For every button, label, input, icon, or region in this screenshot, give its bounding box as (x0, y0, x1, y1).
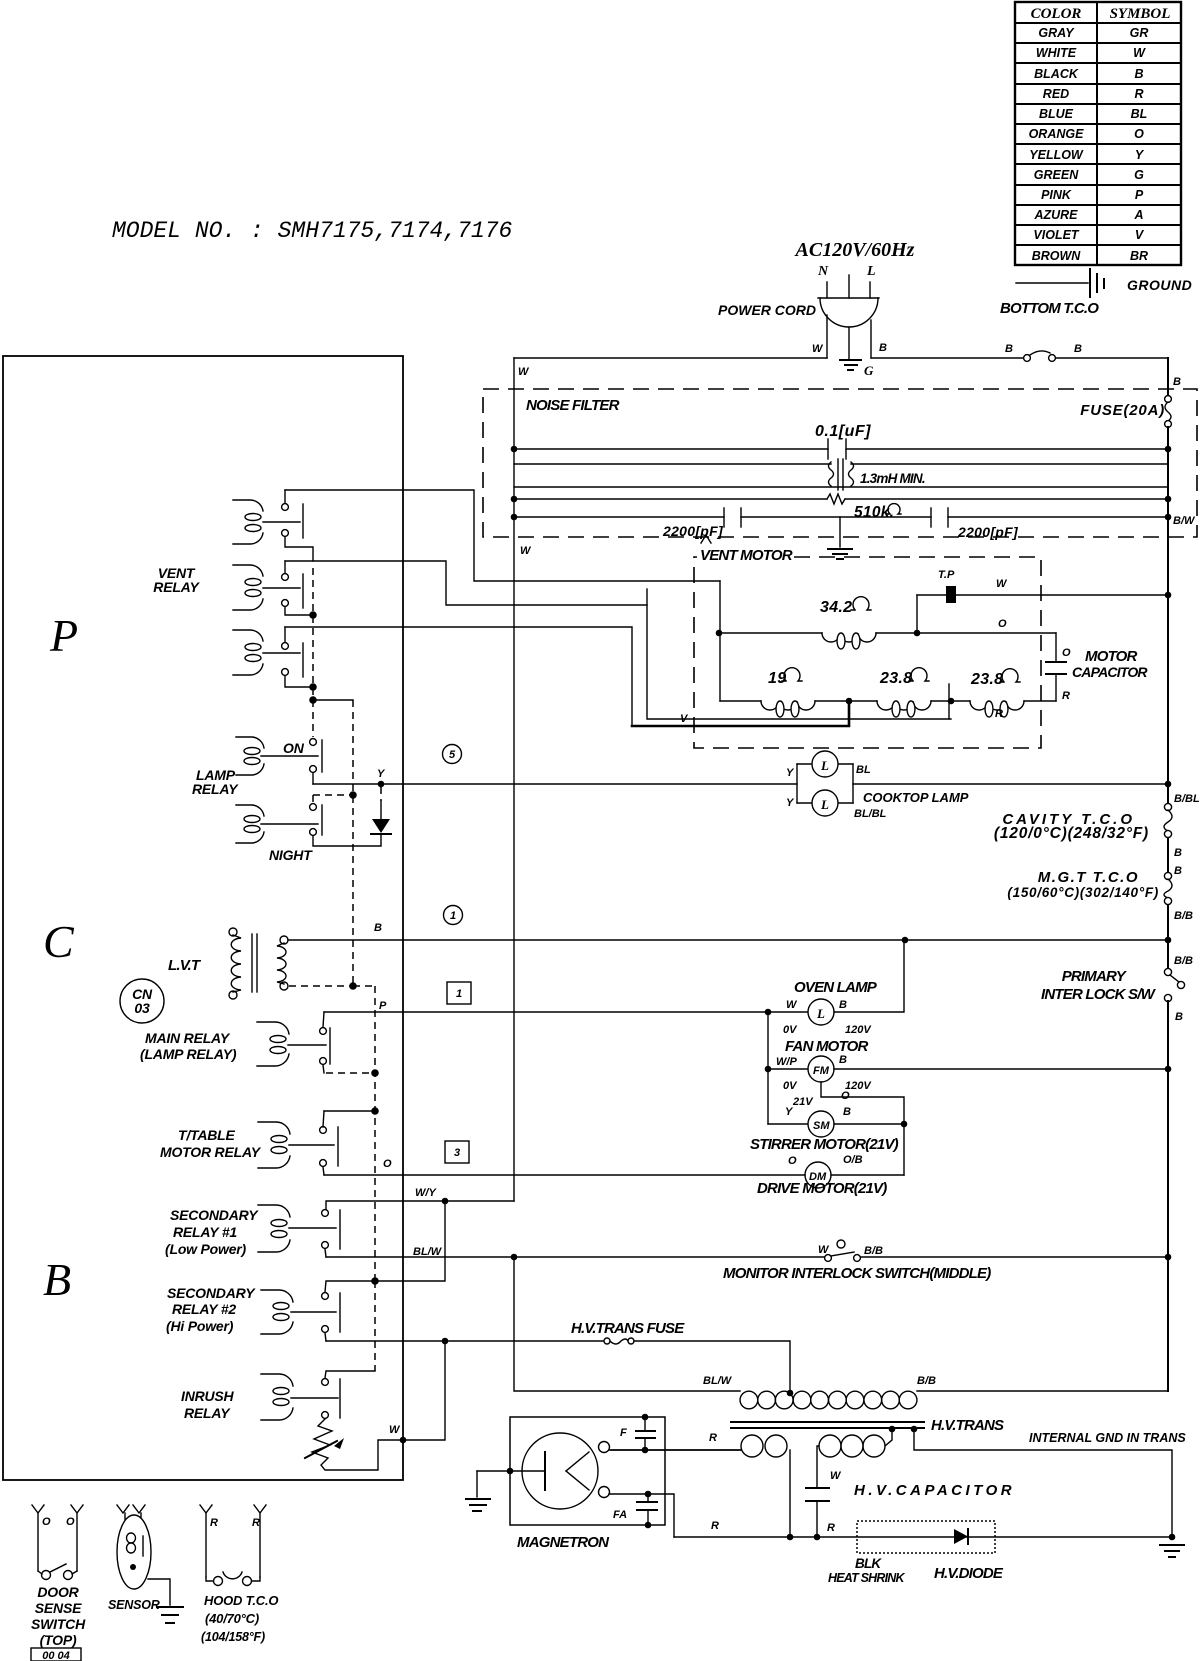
svg-text:GROUND: GROUND (1127, 277, 1192, 293)
svg-text:BOTTOM T.C.O: BOTTOM T.C.O (1000, 300, 1099, 317)
svg-text:1: 1 (450, 910, 456, 922)
svg-text:(LAMP RELAY): (LAMP RELAY) (140, 1046, 237, 1062)
svg-text:VENT MOTOR: VENT MOTOR (700, 547, 793, 564)
svg-text:W: W (812, 343, 824, 355)
svg-text:R: R (827, 1522, 835, 1534)
svg-text:(150/60°C)(302/140°F): (150/60°C)(302/140°F) (1007, 885, 1159, 900)
svg-text:RED: RED (1043, 87, 1069, 101)
svg-text:BR: BR (1130, 249, 1148, 263)
svg-text:L: L (820, 797, 829, 812)
svg-text:BLACK: BLACK (1034, 67, 1079, 81)
svg-text:R: R (711, 1520, 719, 1532)
svg-text:GREEN: GREEN (1034, 168, 1079, 182)
svg-text:O: O (841, 1090, 850, 1102)
svg-text:BL/W: BL/W (703, 1375, 733, 1387)
svg-text:R: R (995, 708, 1003, 720)
svg-text:DRIVE MOTOR(21V): DRIVE MOTOR(21V) (757, 1180, 887, 1197)
svg-text:AZURE: AZURE (1033, 208, 1078, 222)
svg-text:HEAT SHRINK: HEAT SHRINK (828, 1571, 905, 1585)
svg-text:B: B (1173, 376, 1181, 388)
svg-text:RELAY: RELAY (153, 579, 200, 595)
svg-text:FM: FM (813, 1065, 830, 1077)
svg-text:H.V.DIODE: H.V.DIODE (934, 1565, 1004, 1582)
svg-text:0.1[uF]: 0.1[uF] (815, 423, 871, 440)
svg-text:MAIN RELAY: MAIN RELAY (145, 1030, 231, 1046)
svg-text:G: G (864, 363, 874, 378)
svg-text:B: B (374, 922, 382, 934)
svg-text:B/W: B/W (1173, 515, 1196, 527)
svg-text:L.V.T: L.V.T (168, 957, 202, 974)
svg-text:2200[pF]: 2200[pF] (662, 523, 724, 539)
svg-text:19: 19 (768, 670, 786, 687)
svg-text:B: B (1005, 343, 1013, 355)
svg-text:B/B: B/B (917, 1375, 936, 1387)
svg-text:VIOLET: VIOLET (1033, 228, 1080, 242)
svg-text:W/Y: W/Y (415, 1187, 437, 1199)
svg-text:R: R (210, 1517, 218, 1529)
svg-text:BLK: BLK (855, 1556, 882, 1571)
svg-text:RELAY: RELAY (192, 781, 239, 797)
svg-text:INRUSH: INRUSH (181, 1388, 235, 1404)
svg-text:B: B (843, 1106, 851, 1118)
svg-text:L: L (820, 758, 829, 773)
svg-text:(120/0°C)(248/32°F): (120/0°C)(248/32°F) (994, 825, 1149, 842)
svg-text:B: B (1174, 865, 1182, 877)
svg-text:23.8: 23.8 (970, 671, 1003, 688)
svg-text:B: B (879, 342, 887, 354)
svg-text:L: L (816, 1006, 825, 1021)
svg-text:2200[pF]: 2200[pF] (957, 524, 1019, 540)
svg-text:B: B (1134, 67, 1143, 81)
svg-text:SECONDARY: SECONDARY (167, 1285, 256, 1301)
svg-text:O: O (66, 1516, 75, 1528)
svg-text:SECONDARY: SECONDARY (170, 1207, 259, 1223)
svg-text:W: W (389, 1424, 401, 1436)
svg-text:MOTOR RELAY: MOTOR RELAY (160, 1144, 262, 1160)
svg-text:MOTOR: MOTOR (1085, 648, 1138, 665)
svg-text:MAGNETRON: MAGNETRON (517, 1534, 610, 1551)
svg-text:CAPACITOR: CAPACITOR (1072, 664, 1148, 680)
svg-text:B: B (1074, 343, 1082, 355)
svg-text:BL/W: BL/W (413, 1246, 443, 1258)
svg-text:(Low Power): (Low Power) (165, 1241, 247, 1257)
svg-text:BL: BL (856, 764, 871, 776)
svg-text:N: N (817, 264, 829, 279)
svg-text:INTER LOCK S/W: INTER LOCK S/W (1041, 986, 1157, 1003)
svg-text:O: O (42, 1516, 51, 1528)
svg-text:B: B (1175, 1011, 1183, 1023)
svg-text:R: R (252, 1517, 260, 1529)
svg-text:H.V.CAPACITOR: H.V.CAPACITOR (854, 1482, 1015, 1499)
svg-text:5: 5 (449, 749, 456, 761)
svg-text:FAN MOTOR: FAN MOTOR (785, 1038, 868, 1055)
svg-text:A: A (1133, 208, 1143, 222)
svg-text:G: G (1134, 168, 1144, 182)
svg-text:O: O (383, 1158, 392, 1170)
svg-text:F: F (620, 1427, 627, 1439)
svg-text:H.V.TRANS: H.V.TRANS (931, 1417, 1004, 1434)
svg-text:T.P: T.P (938, 569, 955, 581)
svg-text:GRAY: GRAY (1038, 26, 1075, 40)
svg-text:PINK: PINK (1041, 188, 1072, 202)
svg-text:O: O (1062, 647, 1071, 659)
svg-text:STIRRER MOTOR(21V): STIRRER MOTOR(21V) (750, 1136, 899, 1153)
svg-text:3: 3 (454, 1147, 460, 1159)
svg-text:RELAY #1: RELAY #1 (173, 1224, 237, 1240)
svg-text:B: B (839, 1054, 847, 1066)
svg-text:MODEL NO. : SMH7175,7174,7176: MODEL NO. : SMH7175,7174,7176 (112, 218, 512, 244)
svg-text:SENSOR: SENSOR (108, 1598, 160, 1612)
svg-text:BROWN: BROWN (1032, 249, 1082, 263)
svg-text:B/B: B/B (1174, 910, 1193, 922)
svg-text:O: O (788, 1155, 797, 1167)
svg-text:PRIMARY: PRIMARY (1062, 968, 1128, 985)
svg-text:1: 1 (456, 988, 462, 1000)
svg-text:M.G.T T.C.O: M.G.T T.C.O (1038, 869, 1139, 886)
svg-text:O: O (998, 618, 1007, 630)
svg-text:W: W (786, 999, 798, 1011)
svg-text:SM: SM (813, 1120, 830, 1132)
svg-text:O: O (1134, 127, 1144, 141)
svg-text:ON: ON (283, 740, 305, 756)
svg-text:RELAY: RELAY (184, 1405, 231, 1421)
svg-text:(40/70°C): (40/70°C) (205, 1611, 259, 1626)
svg-text:POWER CORD: POWER CORD (718, 302, 816, 318)
svg-text:H.V.TRANS FUSE: H.V.TRANS FUSE (571, 1320, 685, 1337)
svg-text:23.8: 23.8 (879, 670, 912, 687)
svg-text:(TOP): (TOP) (40, 1632, 77, 1648)
svg-text:W/P: W/P (776, 1056, 797, 1068)
svg-text:COLOR: COLOR (1031, 6, 1082, 22)
svg-text:B: B (1174, 847, 1182, 859)
svg-text:T/TABLE: T/TABLE (178, 1127, 236, 1143)
svg-text:ORANGE: ORANGE (1029, 127, 1085, 141)
svg-text:NIGHT: NIGHT (269, 847, 313, 863)
svg-text:P: P (49, 610, 78, 661)
svg-text:B/BL: B/BL (1174, 793, 1200, 805)
svg-text:YELLOW: YELLOW (1029, 148, 1084, 162)
svg-text:GR: GR (1130, 26, 1149, 40)
svg-text:NOISE FILTER: NOISE FILTER (526, 397, 620, 414)
svg-text:O/B: O/B (843, 1154, 863, 1166)
svg-text:(Hi Power): (Hi Power) (166, 1318, 234, 1334)
svg-text:1.3mH MIN.: 1.3mH MIN. (860, 471, 925, 486)
svg-text:MONITOR INTERLOCK SWITCH(MIDDL: MONITOR INTERLOCK SWITCH(MIDDLE) (723, 1265, 991, 1282)
svg-text:W: W (520, 545, 532, 557)
svg-text:P: P (379, 1000, 387, 1012)
svg-text:0V: 0V (783, 1024, 798, 1036)
svg-text:C: C (43, 916, 75, 967)
svg-text:W: W (518, 366, 530, 378)
svg-text:B/B: B/B (1174, 955, 1193, 967)
svg-text:120V: 120V (845, 1024, 872, 1036)
svg-text:DOOR: DOOR (37, 1584, 79, 1600)
svg-text:W: W (1133, 46, 1146, 60)
svg-text:0V: 0V (783, 1080, 798, 1092)
svg-text:BL/BL: BL/BL (854, 808, 887, 820)
svg-text:L: L (866, 264, 876, 279)
svg-text:SENSE: SENSE (35, 1600, 82, 1616)
svg-text:(104/158°F): (104/158°F) (201, 1630, 265, 1644)
svg-text:B: B (839, 999, 847, 1011)
svg-text:BLUE: BLUE (1039, 107, 1074, 121)
svg-text:03: 03 (134, 1000, 150, 1016)
svg-text:SYMBOL: SYMBOL (1110, 6, 1171, 22)
svg-text:R: R (1062, 690, 1070, 702)
svg-text:W: W (830, 1470, 842, 1482)
svg-text:B/B: B/B (864, 1245, 883, 1257)
svg-text:R: R (1134, 87, 1143, 101)
svg-text:P: P (1135, 188, 1144, 202)
svg-text:SWITCH: SWITCH (31, 1616, 86, 1632)
svg-text:WHITE: WHITE (1036, 46, 1077, 60)
svg-text:R: R (709, 1432, 717, 1444)
svg-text:INTERNAL GND IN TRANS: INTERNAL GND IN TRANS (1029, 1431, 1186, 1445)
svg-text:COOKTOP LAMP: COOKTOP LAMP (863, 790, 969, 805)
svg-text:34.2: 34.2 (820, 599, 852, 616)
svg-text:B: B (43, 1254, 71, 1305)
svg-text:OVEN LAMP: OVEN LAMP (794, 979, 878, 996)
svg-text:W: W (996, 578, 1008, 590)
svg-text:21V: 21V (792, 1096, 814, 1108)
svg-text:HOOD T.C.O: HOOD T.C.O (204, 1593, 278, 1608)
svg-text:00 04: 00 04 (42, 1650, 70, 1661)
svg-text:W: W (818, 1244, 830, 1256)
svg-text:FA: FA (613, 1509, 627, 1521)
svg-text:BL: BL (1131, 107, 1148, 121)
svg-text:RELAY #2: RELAY #2 (172, 1301, 236, 1317)
svg-text:AC120V/60Hz: AC120V/60Hz (794, 239, 915, 261)
svg-text:FUSE(20A): FUSE(20A) (1080, 402, 1165, 419)
